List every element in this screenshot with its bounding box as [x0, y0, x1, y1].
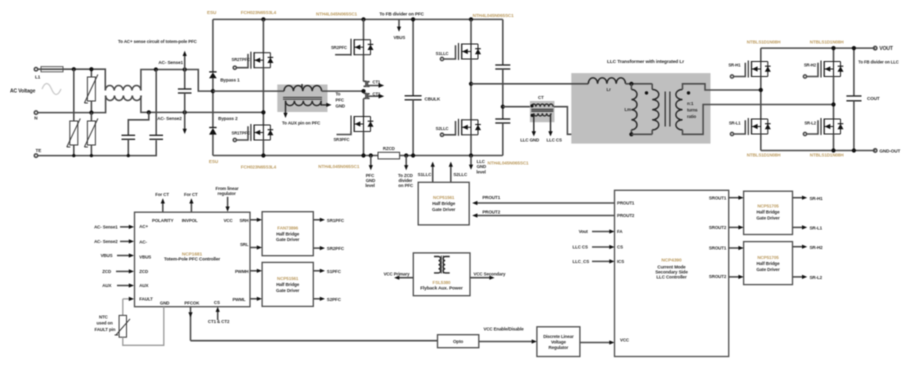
wire PWMH to driver	[250, 269, 262, 273]
svg-text:VBUS: VBUS	[101, 253, 113, 258]
svg-text:NCP51705: NCP51705	[757, 204, 779, 209]
svg-text:CT: CT	[538, 95, 544, 100]
Y-capacitor CY2 (L-TE)	[149, 70, 163, 141]
arrow S1LLC gate	[418, 162, 435, 183]
svg-text:NTBLS1D1N08H: NTBLS1D1N08H	[810, 152, 844, 157]
X-capacitor CX1 (L-N)	[178, 70, 192, 113]
output SR-L2	[793, 275, 823, 280]
svg-text:PROUT1: PROUT1	[482, 195, 500, 200]
svg-text:SR-H1: SR-H1	[728, 63, 741, 68]
NCP1681 box	[135, 212, 251, 307]
svg-text:CS: CS	[214, 300, 220, 305]
node CY1 bottom	[127, 154, 130, 157]
wire L into choke	[213, 90, 284, 92]
svg-text:NCP51705: NCP51705	[757, 255, 779, 260]
resonant capacitor Cr2	[495, 119, 510, 156]
arrow For CT 1	[155, 192, 169, 212]
input LLC CS	[573, 245, 615, 250]
svg-text:To: To	[336, 92, 341, 97]
arrow LLC GND level	[469, 156, 486, 175]
fast leg lower wire	[363, 132, 365, 156]
node DC- fast leg	[361, 153, 365, 157]
node DC+ fast leg	[361, 17, 365, 21]
svg-text:AC Voltage: AC Voltage	[10, 89, 36, 95]
slow leg mid wire	[262, 68, 264, 125]
arrow S2LLC gate	[449, 162, 468, 183]
Y-capacitor CY1 (N-TE)	[122, 112, 149, 155]
label NTC used on FAULT pin	[95, 314, 116, 332]
CT gray box	[530, 101, 555, 122]
driver box FAN73896	[262, 212, 313, 256]
transistor S2PFC fast bottom	[333, 116, 373, 142]
svg-text:TE: TE	[36, 148, 42, 153]
arrow LLC CS from CT	[547, 114, 562, 143]
wire SROUT1a	[729, 196, 744, 200]
svg-text:S1PFC: S1PFC	[327, 269, 342, 274]
slow leg lower wire	[262, 140, 264, 156]
input VBUS	[101, 253, 134, 258]
svg-text:SR1TPFC: SR1TPFC	[232, 131, 251, 136]
node CBULK top	[411, 17, 415, 21]
svg-text:S2LLC: S2LLC	[436, 126, 449, 131]
svg-text:used on: used on	[97, 321, 114, 326]
svg-text:NCP4390: NCP4390	[661, 258, 682, 264]
svg-text:PWML: PWML	[232, 297, 245, 302]
flyback transformer symbol	[434, 256, 450, 274]
sine wave symbol	[42, 84, 61, 95]
node Cr midpoint	[501, 105, 505, 109]
wire TE bottom	[38, 140, 157, 155]
node Lr out	[629, 82, 633, 86]
wire PROUT1	[472, 195, 614, 205]
transformer gray box	[571, 73, 710, 144]
svg-text:Lr: Lr	[607, 87, 612, 92]
secondary top lead	[683, 84, 761, 90]
fuse F1	[38, 67, 63, 72]
transistor S2LLC	[436, 119, 481, 137]
node AC-Sense1 b	[183, 67, 187, 71]
wire choke top right to AC-Sense1	[141, 70, 213, 92]
wire NTC to GND	[123, 307, 164, 346]
arrow LLC GND from CT	[520, 114, 539, 143]
bypass rail	[212, 19, 214, 155]
svg-text:LLC CS: LLC CS	[547, 138, 562, 143]
polarity dot primary	[645, 91, 648, 94]
svg-text:Opto: Opto	[453, 339, 463, 344]
svg-text:RZCD: RZCD	[383, 146, 395, 151]
SR right leg mid	[833, 77, 835, 120]
arrow VCC Secondary	[470, 272, 506, 280]
svg-text:To AUX pin on PFC: To AUX pin on PFC	[282, 120, 321, 125]
LLC leg lower wire	[470, 135, 472, 156]
capacitor COUT	[846, 48, 880, 150]
svg-text:FSL5380: FSL5380	[433, 280, 451, 285]
svg-text:SR-L2: SR-L2	[810, 275, 823, 280]
svg-text:SR-H2: SR-H2	[810, 245, 824, 250]
svg-text:GND: GND	[160, 300, 170, 305]
inductor Lm	[625, 84, 638, 135]
svg-text:VOUT: VOUT	[879, 46, 893, 52]
svg-text:Totem-Pole PFC Controller: Totem-Pole PFC Controller	[164, 257, 220, 262]
svg-text:NTH4L045N065SC1: NTH4L045N065SC1	[473, 13, 515, 18]
svg-text:CS: CS	[617, 245, 623, 250]
output S1PFC	[313, 269, 341, 274]
svg-text:Half Bridge: Half Bridge	[432, 201, 456, 206]
svg-text:NTH4L045N065SC1: NTH4L045N065SC1	[318, 164, 360, 169]
svg-text:NTC: NTC	[99, 314, 109, 319]
label n:1 turns ratio	[687, 101, 698, 119]
svg-text:ZCD: ZCD	[102, 269, 111, 274]
svg-text:S2PFC: S2PFC	[327, 297, 342, 302]
wire Cr mid to CT	[503, 106, 530, 108]
svg-text:turns: turns	[687, 108, 698, 113]
diode Bypass 2	[209, 116, 238, 134]
inductor aux winding	[286, 101, 322, 106]
svg-text:AC- Sense2: AC- Sense2	[157, 116, 182, 121]
opto box	[438, 335, 479, 348]
svg-text:SR2PFC: SR2PFC	[331, 45, 347, 50]
svg-text:CT1 & CT2: CT1 & CT2	[208, 319, 230, 324]
output S2PFC	[313, 297, 341, 302]
svg-text:NTH4L045N065SC1: NTH4L045N065SC1	[316, 12, 358, 17]
svg-text:PFC: PFC	[336, 98, 345, 103]
arrow VCC Primary	[384, 272, 414, 280]
fast leg upper wire	[363, 19, 365, 39]
svg-text:To FB divider on PFC: To FB divider on PFC	[379, 12, 424, 17]
current transformer CT1	[364, 80, 385, 88]
SR right leg upper	[833, 48, 835, 61]
driver box NCP51561 llc	[418, 182, 469, 225]
svg-text:To FB divider on LLC: To FB divider on LLC	[858, 60, 898, 65]
arrow from linear regulator	[216, 186, 239, 212]
transistor SR1TPFC	[232, 52, 274, 70]
resistor RZCD	[378, 146, 400, 159]
wire SRH to driver	[250, 218, 262, 222]
transformer secondary winding	[676, 89, 683, 129]
svg-text:SR-L2: SR-L2	[804, 120, 816, 125]
node VOUT right leg	[831, 46, 835, 50]
node SR left midpoint	[759, 88, 763, 92]
svg-text:Gate Driver: Gate Driver	[756, 215, 780, 220]
arrow For CT 2	[184, 192, 198, 212]
svg-text:L1: L1	[35, 75, 41, 80]
svg-text:CT1: CT1	[373, 80, 381, 85]
svg-text:SR2PFC: SR2PFC	[327, 246, 345, 251]
svg-text:NTBLS1D1N08H: NTBLS1D1N08H	[747, 39, 781, 44]
svg-text:level: level	[365, 183, 374, 188]
svg-text:SR3PFC: SR3PFC	[333, 137, 349, 142]
diode Bypass 1	[209, 72, 240, 82]
wire N to choke	[38, 96, 106, 113]
node DC- slow leg	[261, 153, 265, 157]
wire LLC midpoint to Lr	[471, 83, 588, 85]
svg-text:Half Bridge: Half Bridge	[276, 232, 300, 237]
transistor S1LLC	[436, 43, 481, 61]
SR driver box 1	[744, 191, 793, 234]
node L1a	[72, 67, 76, 71]
transistor SR-H2	[803, 61, 843, 79]
svg-text:AUX: AUX	[102, 283, 111, 288]
svg-text:AC- Sense1: AC- Sense1	[158, 60, 183, 65]
terminal VOUT	[874, 46, 893, 52]
node RV2 bottom	[89, 111, 93, 115]
svg-text:Flyback Aux. Power: Flyback Aux. Power	[420, 285, 463, 290]
input ZCD	[102, 269, 134, 274]
node RV2 top	[89, 67, 93, 71]
arrow PFC GND level	[365, 156, 375, 189]
svg-text:on PFC: on PFC	[398, 183, 414, 188]
current transformer CT primary	[531, 104, 553, 111]
output SR-H2	[793, 245, 824, 250]
stub CS with CT1 CT2	[208, 307, 230, 324]
svg-text:SR-H2: SR-H2	[804, 63, 817, 68]
svg-text:FCH023N65S3L4: FCH023N65S3L4	[241, 164, 277, 169]
secondary bottom lead	[683, 105, 834, 135]
svg-text:Vout: Vout	[579, 229, 589, 234]
svg-text:FAULT pin: FAULT pin	[95, 327, 116, 332]
svg-text:level: level	[476, 169, 485, 174]
node RV3 bottom	[90, 154, 93, 157]
inductor L main winding	[283, 84, 322, 99]
svg-text:PROUT1: PROUT1	[617, 201, 635, 206]
svg-text:SRH: SRH	[239, 218, 248, 223]
svg-text:SRL: SRL	[240, 242, 249, 247]
svg-text:SR1PFC: SR1PFC	[327, 218, 345, 223]
svg-text:FAULT: FAULT	[139, 297, 153, 302]
node COUT top	[852, 46, 856, 50]
svg-text:FAN73896: FAN73896	[277, 226, 298, 231]
output SR-L1	[793, 225, 823, 230]
wire PFCOK to opto	[191, 340, 438, 342]
svg-text:AUX: AUX	[139, 283, 148, 288]
svg-text:PROUT2: PROUT2	[617, 213, 635, 218]
terminal L	[34, 68, 40, 80]
svg-text:Half Bridge: Half Bridge	[276, 282, 300, 287]
svg-text:S2LLC: S2LLC	[453, 172, 468, 177]
arrow AC- sense down	[183, 112, 187, 134]
svg-text:FA: FA	[617, 229, 623, 234]
PFC choke gray box	[277, 85, 327, 113]
resonant capacitor Cr1	[495, 19, 510, 119]
svg-text:Regulator: Regulator	[549, 345, 569, 350]
input AUX	[102, 283, 134, 288]
GND rail	[761, 150, 875, 152]
svg-text:GND: GND	[336, 104, 346, 109]
wire choke bottom right to AC-Sense2	[141, 96, 264, 113]
svg-text:SR2TPFC: SR2TPFC	[232, 57, 251, 62]
varistor RV3 N-TE	[84, 113, 98, 156]
node PFC GND arrow	[369, 153, 373, 157]
wire primary bottom	[631, 133, 652, 135]
transistor S1PFC fast top	[331, 39, 374, 56]
transistor SR2TPFC	[232, 124, 274, 142]
regulator box	[537, 327, 580, 357]
svg-text:ZCD: ZCD	[139, 269, 148, 274]
node slow leg midpoint (N)	[261, 110, 265, 114]
node CT sec dot	[531, 114, 534, 117]
inductor Lr	[588, 78, 625, 92]
wire SRL to driver	[250, 245, 262, 249]
varistor RV1 L-TE	[67, 69, 81, 155]
svg-text:S1LLC: S1LLC	[418, 172, 433, 177]
svg-text:NCP51561: NCP51561	[277, 276, 299, 281]
svg-text:VBUS: VBUS	[394, 35, 406, 40]
polarity dot secondary	[687, 91, 690, 94]
svg-text:S1LLC: S1LLC	[436, 51, 449, 56]
svg-text:COUT: COUT	[867, 96, 880, 101]
node CT pri dot	[530, 104, 533, 107]
input AC- Sense2	[94, 239, 134, 244]
wire SROUT2b	[729, 275, 744, 279]
svg-text:INVPOL: INVPOL	[182, 218, 198, 223]
svg-text:PFCOK: PFCOK	[184, 301, 200, 306]
SR left leg upper	[760, 48, 762, 61]
svg-text:ESU: ESU	[209, 159, 219, 164]
svg-text:Discrete Linear: Discrete Linear	[543, 334, 574, 339]
node L to bypass rail	[211, 89, 215, 93]
common-mode choke L2 top winding	[105, 86, 141, 91]
wire SROUT1b	[729, 246, 744, 250]
node fast leg midpoint	[361, 89, 365, 93]
svg-text:regulator: regulator	[218, 191, 237, 196]
wire choke to fast leg	[322, 90, 364, 92]
wire opto to regulator	[479, 327, 537, 344]
aux left arrow to AUX pin	[282, 101, 321, 126]
transistor SR-L2	[803, 118, 843, 136]
terminal N	[34, 111, 38, 121]
svg-text:Lm: Lm	[625, 107, 632, 112]
node COUT bottom	[852, 148, 856, 152]
wire regulator to VCC	[580, 340, 615, 344]
svg-text:Gate Driver: Gate Driver	[432, 207, 456, 212]
svg-text:ratio: ratio	[687, 114, 696, 119]
svg-text:SROUT2: SROUT2	[709, 225, 727, 230]
svg-text:LLC_CS: LLC_CS	[573, 259, 590, 264]
node RV1 bottom	[72, 154, 75, 157]
svg-text:CBULK: CBULK	[425, 96, 441, 101]
output SR1PFC	[313, 218, 345, 223]
svg-text:VCC: VCC	[620, 338, 630, 343]
node DC+ slow leg	[261, 17, 265, 21]
SR driver box 2	[744, 242, 793, 285]
svg-text:SR-H1: SR-H1	[810, 196, 824, 201]
input FAULT from NTC	[123, 297, 134, 301]
wire PROUT2	[472, 210, 614, 218]
aux right arrow to PFC GND	[321, 92, 345, 109]
svg-text:FCH023N65S3L4: FCH023N65S3L4	[241, 10, 277, 15]
node CBULK bottom	[411, 153, 415, 157]
driver box NCP51561 pfc	[262, 262, 313, 306]
svg-text:VCC Secondary: VCC Secondary	[474, 272, 506, 277]
svg-text:Bypass 2: Bypass 2	[218, 116, 238, 121]
SR left leg mid	[760, 77, 762, 120]
flyback box FSL5380	[413, 253, 470, 296]
transformer primary winding	[652, 84, 659, 135]
svg-text:PWMH: PWMH	[235, 269, 249, 274]
node AC-Sense2 a	[147, 110, 151, 114]
terminal GND-OUT	[874, 148, 901, 153]
svg-text:AC- Sense1: AC- Sense1	[94, 225, 118, 230]
svg-text:Half Bridge: Half Bridge	[756, 210, 780, 215]
svg-text:NTBLS1D1N08H: NTBLS1D1N08H	[810, 39, 844, 44]
svg-text:NTBLS1D1N08H: NTBLS1D1N08H	[747, 152, 781, 157]
svg-text:LLC Transformer with integrate: LLC Transformer with integrated Lr	[607, 59, 684, 65]
node ZCD arrow	[404, 153, 408, 157]
output SR-H1	[793, 196, 824, 201]
input LLC_CS	[573, 259, 615, 264]
VOUT rail	[761, 47, 875, 49]
terminal TE	[34, 148, 41, 157]
svg-text:Bypass 1: Bypass 1	[220, 77, 240, 82]
svg-text:Half Bridge: Half Bridge	[756, 261, 780, 266]
current transformer CT secondary	[534, 113, 551, 116]
NCP4390 box	[615, 190, 729, 356]
SR left leg lower	[760, 134, 762, 151]
arrow VBUS	[394, 19, 406, 40]
wire SROUT2a	[729, 225, 744, 229]
svg-text:VCC Primary: VCC Primary	[384, 272, 411, 277]
transistor SR-H1	[728, 61, 770, 79]
arrow to AC+ sense circuit	[183, 51, 187, 70]
svg-text:SROUT1: SROUT1	[709, 246, 727, 251]
svg-text:POLARITY: POLARITY	[152, 218, 174, 223]
input AC- Sense1	[94, 225, 134, 230]
transformer core	[665, 92, 670, 127]
fast leg wire to bottom mosfet	[363, 99, 365, 117]
DC- rail	[213, 155, 503, 157]
svg-text:NCP51561: NCP51561	[433, 195, 455, 200]
slow leg upper wire	[262, 19, 264, 52]
svg-text:VCC Enable/Disable: VCC Enable/Disable	[484, 327, 525, 332]
capacitor CBULK	[405, 19, 441, 155]
node AC-Sense1 a	[154, 67, 158, 71]
arrow To ZCD divider	[398, 156, 414, 189]
wire PWML to driver	[250, 297, 262, 301]
svg-text:AC+: AC+	[139, 224, 148, 229]
wire CT to transformer return	[554, 107, 632, 135]
svg-text:AC- Sense2: AC- Sense2	[94, 239, 118, 244]
svg-text:LLC CS: LLC CS	[573, 245, 588, 250]
transistor SR-L1	[729, 118, 771, 136]
node SR right midpoint	[831, 102, 835, 106]
svg-text:Gate Driver: Gate Driver	[276, 288, 300, 293]
svg-text:Gate Driver: Gate Driver	[756, 267, 780, 272]
input Vout	[579, 229, 615, 234]
svg-text:VBUS: VBUS	[139, 255, 151, 260]
node GND right leg	[831, 148, 835, 152]
svg-text:n:1: n:1	[687, 101, 694, 106]
svg-text:SROUT2: SROUT2	[709, 274, 727, 279]
fast leg wire to CT	[363, 55, 365, 82]
svg-text:GND-OUT: GND-OUT	[879, 148, 900, 153]
wire PFCOK down	[188, 307, 192, 341]
node Lm bottom	[629, 132, 633, 136]
current transformer CT2	[364, 91, 385, 98]
svg-text:For CT: For CT	[155, 192, 169, 197]
svg-text:SROUT1: SROUT1	[709, 196, 727, 201]
svg-text:ESU: ESU	[207, 10, 217, 15]
node DC+ LLC leg	[469, 17, 473, 21]
svg-text:For CT: For CT	[184, 192, 198, 197]
svg-text:PROUT2: PROUT2	[482, 210, 500, 215]
LLC leg upper wire	[470, 19, 472, 44]
svg-text:VCC: VCC	[224, 218, 234, 223]
varistor RV2 L-N	[84, 69, 98, 112]
svg-text:LLC Controller: LLC Controller	[656, 275, 687, 280]
svg-text:AC-: AC-	[139, 239, 147, 244]
thermistor NTC	[115, 299, 130, 337]
common-mode choke L2 bottom winding	[106, 96, 142, 101]
